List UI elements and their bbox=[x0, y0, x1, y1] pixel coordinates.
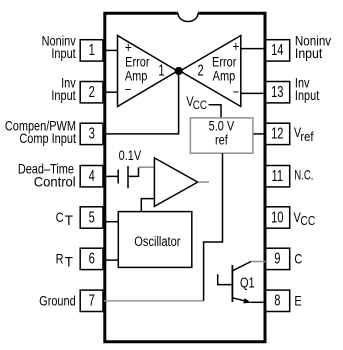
pin label Dead-Time Control (pin 4) bbox=[18, 161, 74, 176]
svg-text:CC: CC bbox=[300, 214, 315, 228]
svg-text:Input: Input bbox=[295, 88, 320, 103]
pin label CT (pin 5) bbox=[56, 210, 73, 228]
svg-text:T: T bbox=[65, 254, 73, 269]
pin 11 box bbox=[266, 166, 290, 187]
svg-text:8: 8 bbox=[274, 292, 280, 309]
wire pin1 to error amp 1 noninv input bbox=[104, 49, 118, 51]
transistor Q1 emitter bbox=[232, 298, 248, 302]
svg-text:11: 11 bbox=[272, 167, 284, 184]
svg-text:−: − bbox=[233, 84, 239, 99]
wire Q1 base lead bbox=[218, 274, 233, 284]
pin 1 box bbox=[80, 40, 103, 61]
pin 12 box bbox=[266, 123, 290, 144]
svg-text:5: 5 bbox=[89, 209, 95, 226]
svg-text:ref: ref bbox=[215, 132, 228, 147]
svg-text:9: 9 bbox=[274, 250, 280, 267]
wire oscillator to dead-time comparator input bbox=[141, 199, 154, 212]
svg-text:Input: Input bbox=[51, 46, 76, 61]
pin 3 box bbox=[80, 123, 103, 144]
pin 14 box bbox=[266, 40, 290, 61]
svg-text:+: + bbox=[125, 39, 132, 56]
svg-text:3: 3 bbox=[89, 125, 95, 142]
pin label Inv Input (pin 13) bbox=[295, 75, 310, 90]
svg-text:C: C bbox=[56, 210, 64, 225]
value label 0.1V bbox=[119, 148, 142, 163]
package pin-1 index notch bbox=[178, 13, 198, 21]
svg-text:C: C bbox=[294, 252, 302, 267]
svg-text:1: 1 bbox=[158, 62, 164, 79]
svg-text:Q1: Q1 bbox=[240, 274, 255, 291]
pin 10 box bbox=[266, 207, 290, 228]
svg-text:R: R bbox=[56, 251, 64, 266]
svg-text:13: 13 bbox=[271, 83, 283, 100]
pin label Compen/PWM Comp Input (pin 3) bbox=[5, 118, 76, 133]
svg-text:E: E bbox=[294, 293, 301, 308]
pin label VCC (pin 10) bbox=[294, 210, 316, 229]
comparator dead-time control bbox=[154, 158, 197, 207]
svg-text:7: 7 bbox=[89, 292, 95, 309]
emitter arrowhead bbox=[243, 298, 251, 303]
transistor Q1 base bar bbox=[231, 265, 233, 302]
svg-text:Ground: Ground bbox=[39, 294, 76, 309]
wire pin12 Vref to 5.0V ref bbox=[253, 133, 266, 135]
wire pin13 to error amp 2 inv input bbox=[241, 92, 266, 94]
wire VCC to 5.0V ref top bbox=[209, 105, 222, 118]
svg-text:Amp: Amp bbox=[213, 68, 236, 83]
pin label N.C. (pin 11) bbox=[294, 167, 313, 183]
wire pin3 to amp output node (feedback) bbox=[104, 71, 179, 134]
voltage reference block 5.0V ref bbox=[190, 118, 253, 153]
svg-text:T: T bbox=[65, 213, 73, 228]
pin label C (pin 9) bbox=[294, 252, 302, 267]
op-amp error amp 1 bbox=[118, 36, 178, 107]
svg-text:+: + bbox=[232, 38, 239, 55]
wire pin4 to dead-time battery bbox=[104, 175, 118, 177]
wire (gray) into comparator bbox=[139, 166, 155, 168]
svg-text:−: − bbox=[125, 82, 131, 97]
oscillator block bbox=[118, 212, 192, 268]
svg-text:Input: Input bbox=[51, 88, 76, 103]
svg-text:1: 1 bbox=[89, 41, 95, 58]
svg-text:N.C.: N.C. bbox=[294, 167, 313, 183]
pin 6 box bbox=[80, 248, 103, 269]
pin label RT (pin 6) bbox=[56, 251, 73, 269]
pin 4 box bbox=[80, 166, 103, 187]
svg-text:Oscillator: Oscillator bbox=[134, 234, 180, 249]
pin 5 box bbox=[80, 207, 103, 228]
svg-text:2: 2 bbox=[89, 83, 95, 100]
wire pin6 RT to oscillator bbox=[104, 259, 118, 261]
pin label Inv Input (pin 2) bbox=[61, 75, 76, 90]
svg-text:Input: Input bbox=[295, 45, 323, 61]
pin label E (pin 8) bbox=[294, 293, 301, 308]
svg-text:Amp: Amp bbox=[125, 68, 148, 83]
wire pin5 CT to oscillator bbox=[104, 221, 118, 223]
wire pin14 to error amp 2 noninv input bbox=[241, 48, 266, 50]
battery 0.1V offset: tall plate bbox=[127, 166, 129, 188]
svg-text:12: 12 bbox=[271, 125, 283, 142]
wire collector to pin 9 (gray) bbox=[251, 261, 266, 263]
wire emitter to pin 8 bbox=[251, 301, 266, 303]
wire 5.0V ref to ground rail bbox=[204, 153, 223, 301]
op-amp error amp 2 bbox=[180, 36, 241, 107]
junction dot (amp outputs node) bbox=[175, 67, 183, 75]
svg-text:Control: Control bbox=[34, 174, 76, 189]
pin label Vref (pin 12) bbox=[294, 125, 314, 144]
wire battery to comparator noninv input bbox=[128, 167, 139, 176]
pin label Noninv Input (pin 1) bbox=[42, 33, 77, 48]
wire pin2 to error amp 1 inv input bbox=[104, 91, 118, 93]
svg-text:ref: ref bbox=[300, 129, 314, 144]
pin 2 box bbox=[80, 82, 103, 103]
svg-text:14: 14 bbox=[271, 41, 284, 58]
svg-text:10: 10 bbox=[271, 209, 283, 226]
net label VCC bbox=[186, 94, 207, 112]
pin label Noninv Input (pin 14) bbox=[295, 33, 332, 49]
transistor Q1 collector bbox=[232, 262, 251, 271]
svg-text:6: 6 bbox=[89, 250, 95, 267]
IC package body U1 (DIP-14 outline) bbox=[105, 13, 265, 342]
svg-text:Comp Input: Comp Input bbox=[19, 131, 76, 146]
svg-text:CC: CC bbox=[193, 99, 207, 112]
pin 7 box bbox=[80, 290, 103, 311]
pin 8 box bbox=[266, 290, 290, 311]
svg-text:0.1V: 0.1V bbox=[119, 148, 142, 163]
pin 9 box bbox=[266, 248, 290, 269]
transistor label Q1 bbox=[240, 274, 255, 291]
svg-text:4: 4 bbox=[89, 167, 96, 184]
wire pin7 ground rail (gray) bbox=[104, 300, 204, 302]
pin label Ground (pin 7) bbox=[39, 294, 76, 309]
battery 0.1V offset: short plate bbox=[117, 170, 119, 184]
svg-text:2: 2 bbox=[197, 62, 203, 79]
wire comparator output stub (gray) bbox=[198, 181, 209, 183]
pin 13 box bbox=[266, 82, 290, 103]
